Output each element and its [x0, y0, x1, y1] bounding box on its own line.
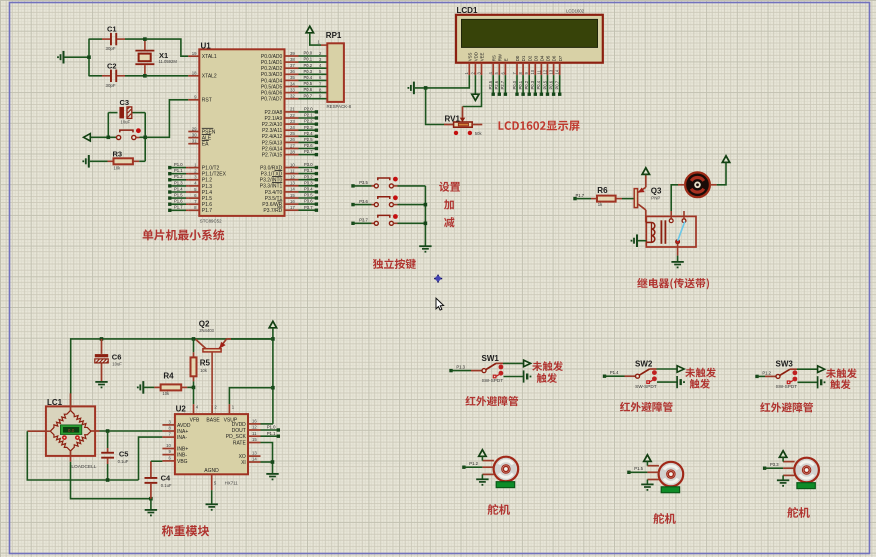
- wire: junction down to RV1 left: [426, 88, 444, 125]
- U1 pin 31 (EA): [188, 139, 209, 148]
- label: 舵机 (2): [653, 513, 675, 524]
- power terminal (servo P1.2): [479, 450, 486, 461]
- resistor R3: [108, 150, 146, 171]
- svg-text:BASE: BASE: [206, 417, 220, 423]
- svg-text:31: 31: [192, 139, 197, 144]
- svg-text:P0.1: P0.1: [518, 80, 523, 89]
- svg-text:SW1: SW1: [482, 354, 500, 363]
- svg-text:P0.4/AD4: P0.4/AD4: [261, 78, 283, 84]
- U1 pin 22 (P2.1/A9): [265, 113, 299, 122]
- svg-text:RS: RS: [491, 55, 496, 61]
- wire/net P0.6 to RP1 pin 8: [299, 87, 327, 92]
- ground (servo P1.2): [476, 474, 488, 485]
- U1 pin 23 (P2.2/A10): [262, 119, 299, 128]
- svg-text:P1.0: P1.0: [174, 162, 183, 167]
- svg-text:P3.0: P3.0: [304, 162, 313, 167]
- wire: rail down right side: [272, 339, 274, 424]
- svg-text:P0.1/AD1: P0.1/AD1: [261, 60, 283, 66]
- svg-text:R3: R3: [113, 150, 123, 159]
- wire/net P2.5 (stub): [299, 137, 319, 144]
- svg-text:P2.5: P2.5: [488, 80, 493, 89]
- svg-text:P0.3: P0.3: [530, 80, 535, 89]
- svg-text:P1.4: P1.4: [202, 190, 213, 196]
- U1 pin 9 (RST): [188, 95, 212, 104]
- wire: C3 right leg down to R3: [144, 113, 146, 162]
- svg-text:39: 39: [290, 51, 295, 56]
- svg-text:12: 12: [252, 425, 257, 430]
- wire/net P1.6 (left): [168, 199, 188, 206]
- svg-text:0.1uF: 0.1uF: [161, 483, 172, 488]
- svg-text:P0.4: P0.4: [304, 75, 313, 80]
- svg-text:VDD: VDD: [474, 52, 479, 61]
- ground (buttons): [419, 246, 431, 252]
- svg-text:P0.5: P0.5: [304, 81, 313, 86]
- U2 pin 10 (INB+): [162, 443, 188, 452]
- svg-text:P2.2/A10: P2.2/A10: [262, 122, 283, 128]
- svg-text:P1.2: P1.2: [762, 370, 771, 375]
- svg-text:P1.0: P1.0: [267, 425, 276, 430]
- svg-text:26: 26: [290, 137, 295, 142]
- wire/net P1.4 (left): [168, 186, 188, 193]
- label: 加: [444, 199, 454, 209]
- svg-text:P2.0: P2.0: [304, 107, 313, 112]
- wire/net P2.0 (stub): [299, 107, 319, 114]
- svg-text:P3.7: P3.7: [304, 205, 313, 210]
- svg-text:P2.2: P2.2: [304, 119, 313, 124]
- svg-text:P1.7: P1.7: [174, 205, 183, 210]
- wire/net P3.6 (stub): [299, 199, 319, 206]
- svg-text:LC1: LC1: [47, 398, 63, 407]
- svg-text:C2: C2: [107, 61, 117, 70]
- wire/net P1.0 (DOUT): [261, 425, 281, 432]
- wire: LCD VEE to RV1 wiper: [463, 75, 482, 106]
- node: reset junction left: [107, 136, 111, 140]
- label: 触发 (SW3): [830, 379, 850, 389]
- svg-text:P1.5: P1.5: [202, 196, 213, 202]
- svg-text:32: 32: [290, 94, 295, 99]
- label: 独立按键: [373, 259, 416, 269]
- svg-text:D3: D3: [533, 55, 538, 61]
- svg-text:XTAL2: XTAL2: [202, 74, 217, 80]
- svg-text:P1.4: P1.4: [174, 186, 183, 191]
- LCD pin 6 (E): [500, 58, 508, 75]
- net P1.5 terminal (servo): [627, 466, 647, 474]
- svg-text:P0.6: P0.6: [304, 87, 313, 92]
- svg-text:15: 15: [290, 193, 295, 198]
- U1 pin 34 (P0.5/AD5): [261, 81, 299, 90]
- svg-text:11: 11: [536, 69, 541, 74]
- wire/net P2.2 (stub): [299, 119, 319, 126]
- LCD pin 11 (D4): [536, 55, 544, 75]
- U2 pin 14 (XI): [241, 457, 260, 466]
- U1 pin 37 (P0.2/AD2): [261, 63, 299, 72]
- LCD pin 3 (VEE): [476, 52, 484, 75]
- svg-text:2N4403: 2N4403: [199, 328, 214, 333]
- label: 未触发 (SW3): [826, 368, 857, 378]
- ground (RATE/XI): [266, 474, 278, 480]
- label: 舵机 (3): [787, 507, 809, 518]
- svg-text:XTAL1: XTAL1: [202, 54, 217, 60]
- wire: C3 left leg down: [107, 113, 109, 138]
- wire/net P0.5 to RP1 pin 7: [299, 81, 327, 86]
- node: rail/VSUP junction: [271, 386, 275, 390]
- svg-text:36: 36: [290, 69, 295, 74]
- svg-text:P0.1: P0.1: [304, 57, 313, 62]
- svg-text:P0.0: P0.0: [304, 51, 313, 56]
- svg-text:16: 16: [252, 419, 257, 424]
- svg-text:P0.3/AD3: P0.3/AD3: [261, 72, 283, 78]
- node: rail/C6: [100, 337, 104, 341]
- terminal arrow (reset, pointing left): [84, 134, 117, 141]
- switch SW2 (SW-SPDT) net P1.4: [603, 359, 685, 388]
- svg-text:DOUT: DOUT: [232, 428, 246, 434]
- svg-text:PD_SCK: PD_SCK: [226, 434, 247, 440]
- U1 pin 30 (ALE): [188, 132, 212, 141]
- svg-text:29: 29: [192, 126, 197, 131]
- U2 pin 4 (VFB): [190, 404, 200, 423]
- svg-text:P2.7: P2.7: [304, 149, 313, 154]
- svg-text:P3.3: P3.3: [304, 180, 313, 185]
- svg-text:38: 38: [290, 57, 295, 62]
- U2 pin 1 (VSUP): [224, 404, 238, 423]
- svg-text:AGND: AGND: [204, 468, 219, 474]
- U2 pin 13 (XO): [239, 451, 261, 460]
- U1 pin 32 (P0.7/AD7): [261, 94, 299, 103]
- power terminal (weigh rail): [269, 321, 276, 339]
- wire: LC1 top lead: [70, 393, 72, 410]
- U1 pin 8 (P1.7): [188, 205, 212, 214]
- svg-text:P2.6/A14: P2.6/A14: [262, 146, 283, 152]
- svg-text:10: 10: [530, 69, 535, 74]
- svg-text:P3.3: P3.3: [770, 462, 779, 467]
- label: 未触发 (SW1): [532, 361, 563, 371]
- capacitor C3: [108, 98, 145, 125]
- resistor R4: [154, 372, 193, 397]
- push button (P3.7): [351, 214, 425, 225]
- svg-text:35: 35: [290, 75, 295, 80]
- svg-text:P0.5/AD5: P0.5/AD5: [261, 84, 283, 90]
- svg-text:SW-SPDT: SW-SPDT: [776, 384, 798, 389]
- wire/net P3.4 (stub): [299, 187, 319, 194]
- wire/net P3.7 (stub): [299, 205, 319, 212]
- wire/net P0.2 to RP1 pin 4: [299, 63, 327, 68]
- svg-text:P1.5: P1.5: [174, 193, 183, 198]
- svg-text:10: 10: [166, 443, 171, 448]
- svg-text:21: 21: [290, 107, 295, 112]
- label: 单片机最小系统: [143, 229, 225, 240]
- U1 pin 29 (PSEN): [188, 126, 216, 135]
- node: R4/R5/VFB junction: [192, 386, 196, 390]
- svg-text:19: 19: [192, 51, 197, 56]
- svg-text:R4: R4: [163, 372, 174, 381]
- power terminal (servo P3.3): [779, 451, 786, 462]
- push button (P3.6): [351, 195, 425, 206]
- svg-text:27: 27: [290, 143, 295, 148]
- power terminal (servo P1.5): [644, 455, 651, 466]
- label: LCD1602显示屏: [499, 121, 580, 131]
- node: ground/C1C2 junction: [87, 55, 91, 59]
- svg-text:C3: C3: [120, 98, 130, 107]
- U1 pin 35 (P0.4/AD4): [261, 75, 299, 84]
- svg-text:HX711: HX711: [225, 481, 239, 486]
- LCD pin 9 (D2): [524, 55, 532, 75]
- wire/net P2.6 (LCD): [494, 75, 501, 96]
- wire/net P0.7 to RP1 pin 9: [299, 93, 327, 98]
- svg-text:D0: D0: [515, 55, 520, 61]
- svg-text:P2.6: P2.6: [494, 80, 499, 89]
- svg-text:P3.2: P3.2: [304, 174, 313, 179]
- svg-text:17: 17: [290, 205, 295, 210]
- svg-text:P2.7/A15: P2.7/A15: [262, 153, 283, 159]
- load cell terminals: [62, 435, 80, 440]
- transistor Q2 (2N4403): [196, 320, 273, 405]
- node: rail/R5: [192, 337, 196, 341]
- svg-text:RV1: RV1: [445, 115, 461, 124]
- load cell display: [60, 425, 81, 435]
- node: RATE/XI junction: [271, 460, 275, 464]
- wire: LC1 right to INA+: [91, 430, 162, 432]
- svg-text:P1.3: P1.3: [456, 365, 465, 370]
- relay moving contact (cyan): [678, 222, 685, 242]
- svg-text:Q3: Q3: [651, 187, 662, 196]
- svg-text:25: 25: [290, 131, 295, 136]
- push button (reset): [117, 128, 146, 139]
- U1 pin 17 (P3.7/RD): [263, 205, 298, 214]
- ground (relay common): [671, 256, 683, 269]
- svg-text:DVDD: DVDD: [232, 422, 247, 428]
- U1 pin 38 (P0.1/AD1): [261, 57, 299, 66]
- svg-text:10uF: 10uF: [121, 120, 131, 125]
- wire: junction to U2 VFB: [193, 387, 195, 404]
- svg-text:D2: D2: [527, 55, 532, 61]
- svg-text:14: 14: [290, 187, 295, 192]
- svg-text:13: 13: [549, 69, 554, 74]
- svg-text:33: 33: [290, 87, 295, 92]
- LCD screen: [462, 19, 598, 47]
- svg-text:D6: D6: [552, 55, 557, 61]
- svg-text:VBG: VBG: [177, 459, 188, 465]
- wire/net P0.3 (LCD): [530, 75, 537, 96]
- svg-text:P3.7: P3.7: [359, 218, 368, 223]
- capacitor C6 (10uF): [95, 339, 122, 382]
- svg-text:SW-SPDT: SW-SPDT: [482, 378, 504, 383]
- wire/net P0.1 (LCD): [518, 75, 525, 96]
- U1 pin 15 (P3.5/T1): [265, 193, 299, 202]
- svg-text:P1.6: P1.6: [202, 202, 213, 208]
- svg-text:C1: C1: [107, 25, 117, 34]
- label: 舵机 (1): [488, 504, 510, 515]
- svg-text:11: 11: [252, 431, 257, 436]
- wire/net P3.1 (stub): [299, 168, 319, 175]
- wire: DVDD to rail: [261, 423, 273, 425]
- capacitor C1: [89, 25, 145, 52]
- svg-text:P1.7: P1.7: [576, 193, 585, 198]
- svg-text:P3.6: P3.6: [304, 199, 313, 204]
- svg-text:LCD1: LCD1: [457, 6, 478, 15]
- U2 pin 16 (DVDD): [232, 419, 261, 428]
- U2 pin 7 (INA-): [162, 432, 187, 441]
- svg-text:D5: D5: [546, 55, 551, 61]
- wire: RATE/XI to ground: [261, 443, 273, 474]
- node: reset junction right: [143, 136, 147, 140]
- ground (C6): [95, 382, 107, 388]
- servo motor (P1.5): [647, 462, 683, 487]
- svg-text:13: 13: [252, 451, 257, 456]
- servo motor (P3.3): [783, 458, 819, 483]
- wire/net P3.3 (stub): [299, 180, 319, 187]
- label: 称重模块: [162, 525, 209, 536]
- node: rail/power: [271, 337, 275, 341]
- capacitor C4 (0.1uF): [145, 461, 172, 499]
- svg-text:P3.6: P3.6: [359, 199, 368, 204]
- motor M (传送带): [678, 172, 717, 197]
- wire/net P0.3 to RP1 pin 5: [299, 69, 327, 74]
- wire/net P0.4 (LCD): [536, 75, 543, 96]
- label: 未触发 (SW2): [685, 368, 716, 378]
- svg-text:P1.2: P1.2: [469, 461, 478, 466]
- svg-text:EA: EA: [202, 142, 209, 148]
- U1 pin 11 (P3.1/TXD): [261, 168, 299, 177]
- net P3.3 terminal (servo): [763, 462, 783, 470]
- svg-text:P0.2: P0.2: [304, 63, 313, 68]
- wire/net P1.7 (left): [168, 205, 188, 212]
- power terminal (motor): [722, 156, 729, 163]
- svg-text:P1.1: P1.1: [174, 168, 183, 173]
- U1 pin 28 (P2.7/A15): [262, 149, 299, 158]
- svg-text:P2.7: P2.7: [500, 80, 505, 89]
- mouse cursor: [436, 298, 444, 310]
- U1 pin 12 (P3.2/INT0): [260, 175, 299, 184]
- wire: rail to U2 VSUP: [229, 388, 273, 405]
- svg-text:P1.7: P1.7: [202, 208, 213, 214]
- switch SW1 (SW-SPDT) net P1.3: [449, 354, 531, 383]
- wire/net P0.5 (LCD): [542, 75, 549, 96]
- svg-text:10k: 10k: [200, 368, 208, 373]
- svg-text:R5: R5: [200, 359, 211, 368]
- wire/net P2.1 (stub): [299, 113, 319, 120]
- LCD pin 7 (D0): [512, 55, 520, 75]
- servo mount plate: [797, 483, 815, 489]
- resistor pack RP1 (RESPACK-8): [326, 31, 352, 109]
- wire/net P0.6 (LCD): [548, 75, 555, 96]
- power terminal (Q3 emitter): [642, 168, 649, 176]
- wire: button common bus: [424, 186, 426, 246]
- svg-text:P0.2/AD2: P0.2/AD2: [261, 66, 283, 72]
- wire/net P1.5 (left): [168, 193, 188, 200]
- svg-text:P1.6: P1.6: [174, 199, 183, 204]
- potentiometer RV1: [444, 107, 482, 137]
- U1 pin 2 (P1.1/T2EX): [188, 169, 226, 178]
- svg-text:11: 11: [290, 168, 295, 173]
- wire: C2 to XTAL2: [145, 75, 188, 77]
- svg-text:INA+: INA+: [177, 429, 188, 435]
- svg-text:P1.5: P1.5: [634, 466, 643, 471]
- resistor R6: [575, 186, 634, 207]
- U1 pin 27 (P2.6/A14): [262, 143, 299, 152]
- svg-text:10k: 10k: [114, 165, 122, 170]
- wire/net P1.3 (left): [168, 180, 188, 187]
- svg-text:P2.1: P2.1: [304, 113, 313, 118]
- LCD pin 1 (VSS): [464, 52, 472, 75]
- LCD pin 10 (D3): [530, 55, 538, 75]
- svg-text:P0.7: P0.7: [304, 93, 313, 98]
- wire: C1 to XTAL1: [145, 39, 188, 56]
- wire/net P3.2 (stub): [299, 174, 319, 181]
- wire: motor to power: [717, 163, 726, 185]
- LCD pin 2 (VDD): [470, 52, 478, 75]
- U1 pin 33 (P0.6/AD6): [261, 87, 299, 96]
- svg-text:P2.4/A12: P2.4/A12: [262, 134, 283, 140]
- node: X1 bottom: [143, 74, 147, 78]
- U2 AGND label: [204, 468, 219, 474]
- svg-text:10uF: 10uF: [112, 362, 122, 367]
- svg-text:P0.6/AD6: P0.6/AD6: [261, 91, 283, 97]
- wire: C1.left to C2.left vertical: [88, 39, 90, 77]
- svg-text:12: 12: [290, 175, 295, 180]
- push button (P3.5): [351, 177, 425, 188]
- load cell LC1 body: [46, 398, 97, 470]
- svg-text:RST: RST: [202, 98, 212, 104]
- svg-text:STC89C52: STC89C52: [200, 218, 222, 223]
- wire/net P1.1 (left): [168, 168, 188, 175]
- LCD pin 13 (D6): [549, 55, 557, 75]
- net P1.7 terminal: [573, 193, 584, 200]
- U1 pin 13 (P3.3/INT1): [260, 181, 299, 190]
- U1 pin 14 (P3.4/T0): [265, 187, 299, 196]
- power terminal (RP1): [306, 26, 313, 33]
- U1 pin 3 (P1.2): [188, 175, 212, 184]
- U1 pin 7 (P1.6): [188, 199, 212, 208]
- svg-text:P1.3: P1.3: [174, 180, 183, 185]
- ground (servo P3.3): [777, 475, 789, 486]
- ground (U2 AGND): [206, 504, 218, 510]
- node: bus/P3.7: [424, 222, 428, 226]
- power terminal (LCD VDD, down): [472, 75, 479, 100]
- svg-text:P2.5: P2.5: [304, 137, 313, 142]
- svg-text:P2.1/A9: P2.1/A9: [265, 116, 283, 122]
- capacitor C5 (0.1uF): [101, 431, 129, 480]
- wire/net P2.7 (LCD): [500, 75, 507, 96]
- crystal X1: [135, 39, 177, 76]
- svg-text:P3.4/T0: P3.4/T0: [265, 190, 283, 196]
- svg-text:0.1uF: 0.1uF: [118, 459, 129, 464]
- load cell bridge: [50, 410, 91, 451]
- wire: supply rail (weigh section): [71, 339, 273, 411]
- net P1.2 terminal (servo): [462, 461, 482, 469]
- svg-text:15: 15: [252, 437, 257, 442]
- U1 pin 25 (P2.4/A12): [262, 131, 299, 140]
- ground (LC1 bottom): [145, 499, 157, 517]
- svg-text:16: 16: [290, 199, 295, 204]
- svg-text:P2.3: P2.3: [304, 125, 313, 130]
- node: C5/loop junction: [106, 478, 110, 482]
- ground (R4): [137, 381, 155, 394]
- svg-text:30pF: 30pF: [106, 83, 116, 88]
- svg-text:XI: XI: [241, 460, 246, 466]
- svg-text:37: 37: [290, 63, 295, 68]
- ground (LCD VSS): [408, 82, 414, 95]
- wire/net P2.6 (stub): [299, 143, 319, 150]
- servo mount plate: [661, 487, 679, 493]
- svg-text:RESPACK-8: RESPACK-8: [327, 104, 352, 109]
- svg-text:VEE: VEE: [480, 52, 485, 61]
- wire/net P3.5 (stub): [299, 193, 319, 200]
- svg-text:22: 22: [290, 113, 295, 118]
- svg-text:SW3: SW3: [776, 360, 794, 369]
- wire/net P2.5 (LCD): [488, 75, 495, 96]
- svg-text:P2.4: P2.4: [304, 131, 313, 136]
- svg-text:P1.0/T2: P1.0/T2: [202, 166, 220, 172]
